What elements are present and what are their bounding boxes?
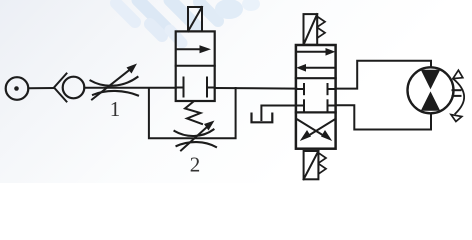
spring of valve V1 bbox=[185, 102, 202, 125]
wire pump to check valve bbox=[28, 87, 54, 89]
watermark bbox=[116, 0, 260, 43]
wire B port to motor bottom bbox=[336, 105, 431, 129]
valve V2 bottom position crossed arrow 1 bbox=[300, 120, 335, 142]
pump (energy source circle with dot) bbox=[6, 77, 29, 100]
wire valve V1 to valve V2 (P line) bbox=[215, 87, 297, 90]
bypass loop wire bbox=[149, 88, 236, 138]
svg-text:2: 2 bbox=[190, 153, 201, 177]
hydraulic motor bbox=[408, 67, 454, 113]
throttle valve 2 bbox=[175, 121, 217, 151]
solenoid pilot top of valve V2 bbox=[304, 14, 326, 45]
valve V1 body (2/2 directional valve) bbox=[176, 31, 215, 101]
tank drain wire bbox=[261, 106, 296, 121]
bidirectional rotation arrow bbox=[451, 70, 464, 121]
tank bbox=[252, 114, 273, 123]
solenoid pilot bottom of valve V2 bbox=[304, 151, 326, 179]
wire A port to motor top bbox=[336, 61, 431, 89]
valve V2 middle position blocked port lower-left bbox=[297, 100, 304, 110]
valve V2 bottom position crossed arrow 2 bbox=[298, 120, 333, 142]
throttle valve 1 bbox=[91, 64, 139, 100]
valve V2 middle position blocked port upper-right bbox=[328, 84, 335, 94]
valve V1 top position flow arrow bbox=[177, 45, 212, 53]
valve V1 bottom position blocked port right bbox=[207, 78, 214, 97]
valve V1 bottom position blocked port left bbox=[177, 78, 184, 97]
solenoid of valve V1 bbox=[188, 7, 202, 31]
valve V2 top position arrow left bbox=[296, 64, 335, 72]
valve V2 middle position blocked port upper-left bbox=[297, 84, 304, 94]
check valve bbox=[54, 74, 84, 102]
wire check valve to valve V1 bbox=[84, 87, 176, 89]
svg-text:1: 1 bbox=[110, 97, 121, 121]
motor shaft bbox=[453, 90, 461, 96]
valve V2 body (4/3 directional valve) bbox=[296, 45, 336, 149]
valve V2 top position arrow right bbox=[298, 48, 336, 56]
valve V2 middle position blocked port lower-right bbox=[328, 100, 335, 110]
